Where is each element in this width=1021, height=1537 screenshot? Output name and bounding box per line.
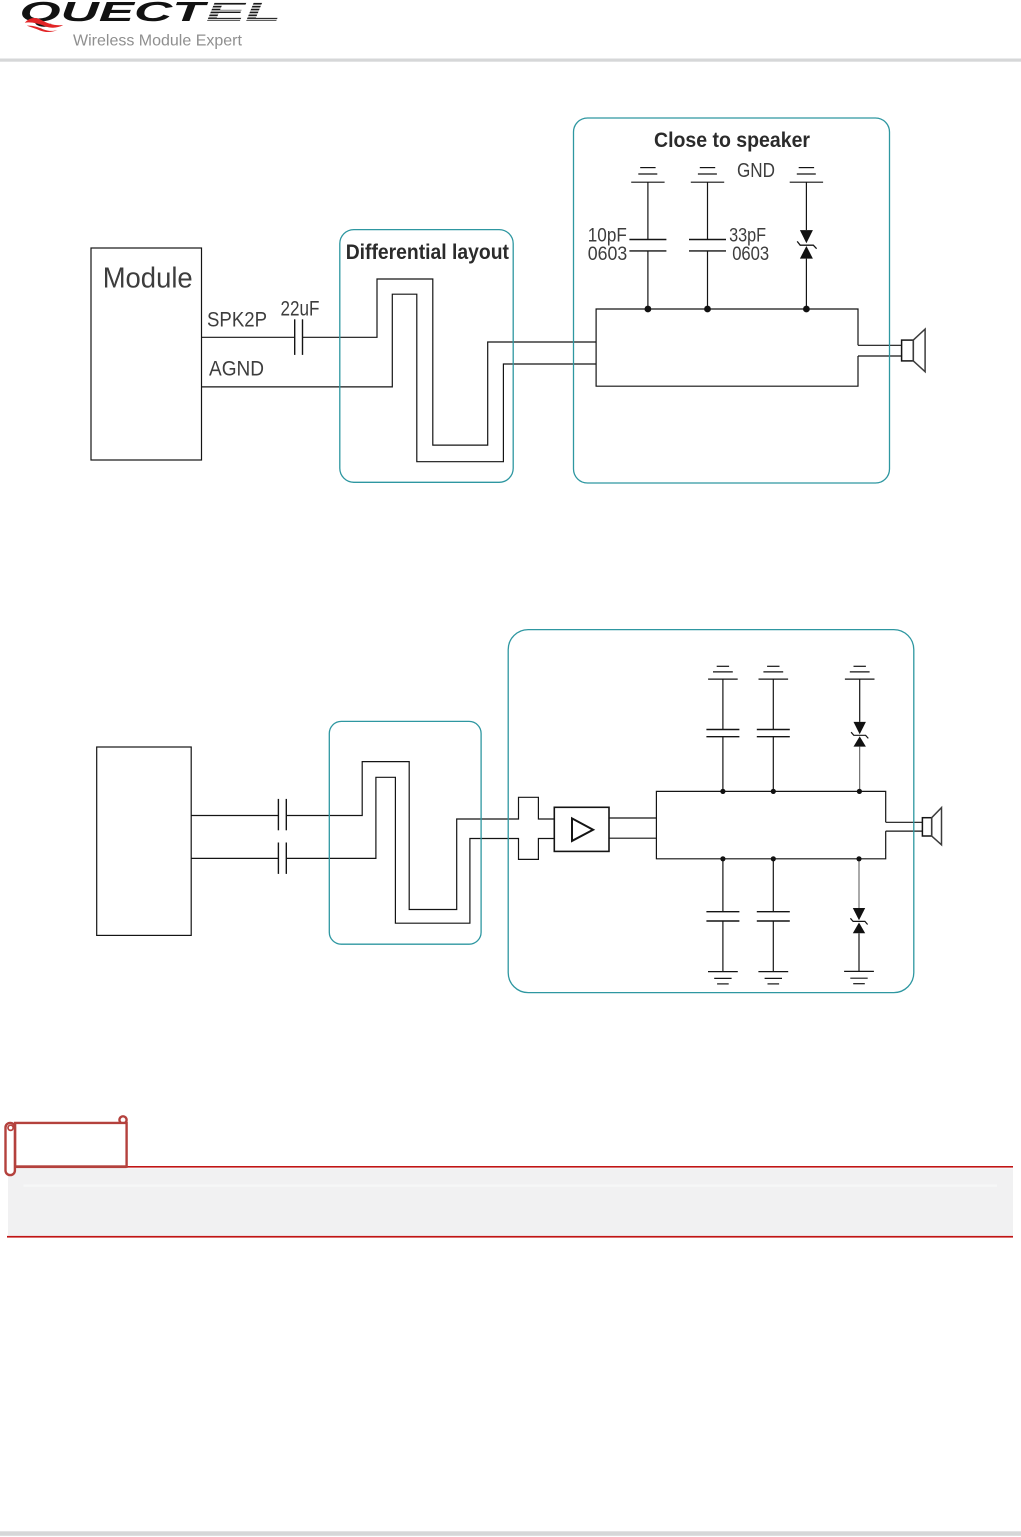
svg-text:QUECT: QUECT	[20, 0, 209, 27]
wire TVS to bus	[805, 259, 807, 309]
capacitor C1 22uF series plates	[295, 319, 303, 355]
TVS diode D1	[797, 230, 816, 259]
differential layout callout box	[340, 230, 513, 483]
capacitor C4 series plates upper	[278, 799, 286, 830]
wire SPK2P from module to capacitor	[202, 336, 295, 338]
svg-text:Differential layout: Differential layout	[346, 241, 509, 264]
amplifier U1 triangle	[572, 818, 593, 841]
note tag scroll shape	[6, 1116, 127, 1175]
table header grey band	[8, 1168, 1013, 1235]
ground G7 bottom	[708, 972, 738, 984]
wire ground to C2	[647, 182, 649, 239]
svg-text:Wireless Module Expert: Wireless Module Expert	[73, 33, 243, 50]
svg-text:SPK2P: SPK2P	[207, 308, 267, 331]
Quectel logo red swoosh	[25, 18, 63, 32]
wire C7 to bus	[772, 737, 774, 792]
speaker LS1	[902, 329, 926, 372]
wire C9 to ground	[772, 921, 774, 972]
ground G1 inverted	[631, 168, 664, 183]
close to speaker callout box	[574, 118, 890, 483]
wire bus to TVS D3	[858, 859, 860, 908]
junction node dots top bus 2	[720, 789, 862, 862]
capacitor C5 series plates lower	[278, 843, 286, 874]
ground G4 inverted top	[708, 666, 738, 679]
TVS diode D2	[851, 722, 868, 747]
wire C2 to bus	[647, 251, 649, 309]
ground G9 bottom	[844, 971, 874, 983]
capacitor C6 plates	[706, 730, 739, 737]
wire bus to C8	[722, 859, 724, 912]
TVS diode D3	[850, 908, 867, 933]
ground G2 inverted	[691, 168, 724, 183]
table row separator	[23, 1184, 997, 1186]
wire lower meander trace	[286, 777, 554, 923]
svg-text:EL: EL	[206, 0, 281, 27]
svg-text:0603: 0603	[588, 244, 628, 265]
capacitor C2 10pF plates	[629, 240, 666, 251]
wire bus to C9	[772, 859, 774, 912]
capacitor C7 plates	[757, 730, 790, 737]
ground G6 inverted top	[845, 666, 875, 679]
wire ground to C6	[722, 679, 724, 729]
wire ground to TVS D2	[859, 679, 861, 722]
close to speaker callout box 2	[508, 630, 914, 993]
svg-text:GND: GND	[737, 160, 775, 182]
ground G3 inverted	[790, 168, 823, 183]
wire ground to C3	[707, 182, 709, 239]
wire AGND meander trace	[202, 294, 597, 462]
svg-text:AGND: AGND	[209, 357, 264, 380]
wire upper from module	[191, 815, 278, 817]
header divider line	[0, 59, 1021, 62]
wire TVS D3 to ground	[858, 933, 860, 971]
module M1 box	[91, 248, 202, 460]
wire amp outputs to bus	[609, 817, 656, 819]
speaker bus rectangle	[596, 309, 858, 386]
wire stubs to speaker LS1	[858, 344, 902, 346]
capacitor C9 plates	[757, 912, 790, 921]
svg-text:22uF: 22uF	[281, 297, 320, 320]
svg-text:Close to speaker: Close to speaker	[654, 129, 810, 152]
ground G5 inverted top	[759, 666, 789, 679]
wire SPK2P meander trace	[303, 279, 597, 445]
wire ground to TVS D1	[805, 182, 807, 230]
svg-text:Module: Module	[103, 262, 193, 294]
table header top red line	[14, 1166, 1013, 1168]
wire lower from module	[191, 857, 278, 859]
wire stubs to speaker LS2	[886, 821, 923, 823]
module M2 box	[97, 747, 192, 935]
table header bottom red line	[7, 1236, 1013, 1238]
junction node dots on bus	[645, 306, 810, 313]
amplifier U1 box	[554, 807, 609, 851]
ground G8 bottom	[758, 972, 788, 984]
capacitor C8 plates	[706, 912, 739, 921]
svg-text:0603: 0603	[732, 244, 769, 265]
speaker bus rectangle 2	[656, 791, 885, 858]
footer divider line	[0, 1531, 1021, 1536]
wire C6 to bus	[722, 737, 724, 792]
capacitor C3 33pF plates	[689, 240, 726, 251]
wire C3 to bus	[707, 251, 709, 309]
wire upper meander trace	[286, 762, 554, 910]
speaker LS2	[922, 808, 941, 845]
differential layout callout box 2	[329, 721, 481, 944]
wire C8 to ground	[722, 921, 724, 972]
wire TVS D2 to bus	[859, 747, 861, 792]
wire ground to C7	[772, 679, 774, 729]
